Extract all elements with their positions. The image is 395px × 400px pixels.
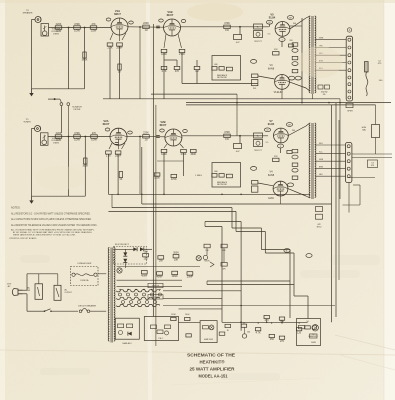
pentode V7 EL84 (upper right-ch) — [268, 119, 289, 143]
triode V2A 6EU7 — [103, 119, 127, 145]
pin oval V2A right — [128, 131, 133, 134]
svg-text:ALL CAPACITORS IN MFD ±20% AT: ALL CAPACITORS IN MFD ±20% AT μMFD UNLES… — [11, 218, 92, 221]
wire - bus h1 — [151, 93, 237, 95]
hum balance box — [362, 125, 380, 138]
svg-text:TUNER: TUNER — [23, 122, 31, 124]
svg-text:1/2W: 1/2W — [91, 30, 97, 33]
wire - junction drop — [139, 27, 141, 99]
paper stain top — [187, 3, 243, 21]
svg-text:NETWORK: NETWORK — [217, 184, 227, 186]
resistor R117 100 ch2 — [292, 163, 298, 166]
resistor R10 270K — [179, 49, 185, 56]
node — [239, 26, 241, 28]
wire - vert v1 — [153, 24, 155, 94]
heater loops 3 — [117, 304, 160, 306]
pentode V6 EL84 (lower left-ch) — [275, 75, 290, 90]
capacitor C104 — [156, 136, 160, 138]
resistor R109 100K — [161, 149, 167, 156]
input jack J1 (left channel) — [23, 10, 42, 22]
wire - V1A plate to V1B grid — [128, 26, 164, 28]
switch SW2 on bottom wire — [40, 309, 78, 312]
transformer T2 output — [309, 123, 316, 199]
ground (right input) — [29, 196, 33, 204]
wire — [119, 46, 121, 99]
wire — [141, 147, 143, 204]
wire - B+ pair to preamp h2 — [207, 284, 294, 286]
svg-text:220K: 220K — [171, 314, 176, 316]
resistor R21 filter — [158, 256, 164, 263]
resistor R22 filter — [173, 252, 179, 262]
capacitor C4 coupling — [234, 35, 242, 44]
resistor R114 470K — [224, 131, 231, 141]
svg-text:9.5: 9.5 — [266, 142, 269, 144]
resistor R34 — [269, 334, 274, 341]
svg-text:47K: 47K — [175, 70, 180, 73]
svg-text:40MF 350V: 40MF 350V — [204, 339, 214, 341]
can capacitor C21 — [196, 256, 201, 261]
resistor R117b — [292, 176, 298, 179]
wire — [240, 26, 269, 28]
B+ oval label 2 — [306, 254, 312, 258]
feedback network box ch2 — [212, 163, 241, 188]
T2 secondary stubs + labels — [315, 143, 345, 176]
diode D2 — [140, 247, 144, 251]
resistor R31 — [255, 328, 261, 335]
wire — [312, 94, 314, 99]
svg-text:GRN: GRN — [319, 159, 324, 161]
wire - ch1 input line — [49, 27, 112, 29]
resistor R20 filter — [143, 251, 149, 261]
wire - ch1 lower bus — [103, 98, 340, 100]
wire — [32, 19, 36, 21]
svg-text:1/2W: 1/2W — [74, 139, 80, 142]
svg-text:470K: 470K — [171, 178, 177, 181]
impedance tap boxes — [318, 85, 330, 96]
pin oval V7 cathode — [277, 144, 283, 148]
capacitor C3 — [156, 26, 160, 28]
resistor R16 22K — [273, 49, 279, 55]
wire — [60, 106, 62, 134]
wire - staircase c — [205, 221, 241, 223]
svg-text:OUTLET: OUTLET — [65, 292, 73, 294]
svg-text:20MF: 20MF — [172, 275, 179, 278]
svg-text:CIRCUIT BREAKER: CIRCUIT BREAKER — [78, 304, 97, 307]
diode D4 — [123, 259, 127, 263]
svg-text:WERE TAKEN WITH A 1 MEGOHM INP: WERE TAKEN WITH A 1 MEGOHM INPUT VTVM AT… — [13, 234, 76, 237]
label 6.3V row1 — [148, 283, 163, 287]
screen divider stack — [254, 24, 263, 43]
pin oval V6b — [295, 76, 301, 80]
resistor R41 — [185, 317, 190, 320]
resistor R110 270K — [181, 149, 187, 156]
damping network cluster right — [316, 207, 323, 229]
wire - B+ rail vertical — [301, 18, 303, 103]
voltage labels near V5 — [268, 23, 296, 36]
wire - V8 cathode to bus — [280, 196, 282, 204]
pentode V5 EL84 (upper left-ch) — [269, 13, 290, 37]
resistor R30 — [241, 324, 246, 327]
svg-text:1 MEG: 1 MEG — [195, 175, 202, 177]
svg-text:NEON: NEON — [204, 261, 210, 263]
triode V1A 6EU7 — [111, 9, 128, 35]
diode D5 bias — [128, 332, 132, 336]
node — [139, 26, 141, 28]
triode V2B 6EU7 — [160, 120, 182, 146]
resistor R9 100K — [161, 49, 167, 56]
wire — [196, 60, 198, 66]
svg-text:SILICON RECT.: SILICON RECT. — [115, 244, 130, 246]
resistor R17b — [292, 69, 298, 72]
svg-text:22K: 22K — [274, 49, 278, 51]
svg-text:470K: 470K — [74, 132, 80, 135]
svg-text:470K: 470K — [74, 23, 80, 26]
silicon rectifier dashed box — [114, 244, 147, 264]
svg-text:1 MEG: 1 MEG — [53, 143, 60, 145]
wire - heater run 2 — [163, 297, 222, 299]
svg-text:SPKR: SPKR — [347, 110, 353, 112]
screen divider stack 2 — [254, 133, 263, 152]
heater loops 2 — [117, 297, 160, 299]
wire - V6 grid bus — [182, 83, 258, 85]
resistor R33 — [279, 317, 284, 324]
svg-text:330K: 330K — [190, 153, 196, 156]
wire — [107, 154, 109, 194]
T1 secondary stubs + labels — [315, 38, 350, 91]
svg-text:220K: 220K — [143, 132, 149, 135]
resistor R3 470K — [74, 23, 81, 33]
resistor R5 360K — [82, 52, 88, 62]
svg-text:N750: N750 — [317, 226, 322, 228]
svg-text:V6 EL84: V6 EL84 — [274, 92, 284, 94]
faint crease above title — [0, 350, 395, 355]
resistor R40 — [171, 317, 176, 320]
svg-text:AT NO SIGNAL. DC VOLTAGES MAY: AT NO SIGNAL. DC VOLTAGES MAY VARY ±10% … — [13, 231, 92, 234]
terminal strip TS2 — [346, 143, 352, 183]
transformer PT1 power — [108, 248, 115, 343]
wire - V1B plate to output stage — [181, 26, 241, 28]
wire - AC top — [23, 289, 28, 291]
resistor R113 470K — [171, 174, 177, 181]
wire - vert x241 heater — [240, 222, 242, 331]
bias row wires — [222, 319, 308, 334]
wire - ch2 lower bus B — [142, 203, 332, 205]
resistor R7 1K — [118, 64, 122, 74]
svg-text:MODEL AA-151: MODEL AA-151 — [199, 373, 228, 378]
svg-text:NETWORK: NETWORK — [217, 77, 227, 79]
resistor R32 — [264, 315, 269, 322]
wire - bus h3 — [186, 104, 376, 106]
wire - V8 plate to T2 primary bottom — [288, 189, 306, 196]
capacitor C109 oval — [292, 155, 298, 159]
wire - ch2 lower bus A — [108, 193, 310, 195]
resistor R106 2.2K — [106, 151, 112, 158]
svg-text:40MF: 40MF — [156, 276, 163, 279]
wire — [124, 249, 126, 252]
triode V1B 6EU7 — [164, 10, 181, 36]
svg-text:10K: 10K — [174, 258, 179, 261]
feedback network box ch1 — [212, 56, 241, 81]
svg-text:6EU7: 6EU7 — [103, 122, 110, 126]
transformer T1 output — [309, 16, 316, 94]
staircase bus pair — [108, 208, 308, 319]
bottom right cluster — [297, 319, 321, 346]
resistor R115 269 — [287, 151, 292, 154]
svg-text:6EU7: 6EU7 — [160, 123, 167, 127]
svg-text:FILTER: FILTER — [74, 109, 81, 111]
svg-text:1/2W: 1/2W — [74, 30, 80, 33]
input jack J2 (right channel) — [23, 119, 40, 131]
wire - heater run 3 — [163, 305, 335, 307]
wire — [183, 153, 185, 176]
svg-text:1/2W: 1/2W — [91, 139, 97, 142]
capacitor C22 40MF — [141, 271, 148, 278]
wire — [67, 106, 69, 137]
wire - V1B cathode drops — [164, 34, 182, 48]
capacitor C7 oval — [292, 49, 298, 53]
heater row circles 1 — [119, 289, 162, 296]
wire - V2A cathode drops — [109, 143, 125, 149]
svg-text:6.3V 3A: 6.3V 3A — [152, 296, 159, 299]
wire - vert v4 — [236, 94, 238, 136]
resistor R37 — [305, 326, 310, 329]
node — [84, 136, 86, 138]
wire — [84, 28, 86, 89]
pin oval V1B right — [181, 20, 186, 23]
label scratch filter — [72, 106, 82, 111]
resistor R12 47K — [174, 66, 180, 73]
wire — [179, 321, 201, 323]
wire - ch2 ground bus — [32, 195, 86, 197]
capacitor C102 — [115, 151, 122, 158]
wire - V2A plate to V2B grid — [127, 135, 165, 138]
wire — [290, 25, 302, 27]
mid-left divider cluster — [203, 244, 227, 270]
svg-text:SW: SW — [27, 290, 30, 292]
svg-text:360K: 360K — [82, 165, 88, 168]
svg-text:P.E.C.: P.E.C. — [158, 338, 164, 340]
wire — [38, 274, 40, 284]
level control R1 box — [41, 24, 49, 37]
capacitor C106 oval — [286, 123, 292, 127]
capacitor C105 coupling — [234, 144, 242, 153]
wire — [84, 137, 86, 197]
label level control — [51, 29, 62, 36]
wire — [68, 28, 70, 89]
notes text block — [9, 206, 98, 240]
wire — [181, 53, 183, 84]
pin oval V1B left — [159, 19, 164, 22]
label level control 2 — [51, 138, 62, 145]
svg-text:EL84: EL84 — [269, 16, 276, 20]
pin oval V1A left — [106, 18, 111, 21]
wire — [240, 135, 268, 137]
wire - V8 grid line — [258, 183, 273, 186]
pin oval V2A left — [105, 128, 110, 131]
svg-text:680: 680 — [214, 64, 217, 66]
component chain between V7/V8 — [292, 149, 298, 152]
wire — [269, 24, 271, 27]
svg-text:NOTES:: NOTES: — [11, 206, 21, 209]
capacitor C23 40MF — [156, 272, 163, 279]
svg-text:47K: 47K — [265, 319, 270, 322]
wire - V5 plate to T1 primary top — [290, 18, 306, 29]
svg-text:GRN: GRN — [319, 38, 324, 40]
svg-text:EL84: EL84 — [268, 122, 275, 126]
svg-text:6AN8: 6AN8 — [268, 174, 275, 177]
wire — [163, 53, 165, 99]
wire - vert v3 — [155, 105, 157, 346]
svg-text:HEATHKIT®: HEATHKIT® — [200, 359, 226, 364]
scratch filter switch — [48, 98, 70, 105]
svg-text:22K: 22K — [274, 156, 278, 158]
resistor R107 1K — [119, 172, 123, 182]
wire - V2B cathode drops — [164, 144, 184, 148]
diode D1 — [133, 247, 137, 251]
label to heaters — [309, 334, 319, 338]
thermal breaker — [78, 304, 97, 312]
resistor R18 grid — [252, 74, 258, 90]
bleed-through ghost marks — [20, 255, 380, 380]
wire - junction drop 2 — [139, 137, 141, 195]
bottom mid network — [144, 317, 178, 341]
resistor R6 2.2K — [107, 43, 113, 50]
wire - V6 grid line — [258, 76, 275, 79]
wire - V6 cathode to bus — [281, 89, 283, 99]
wire - PS bus A — [117, 266, 201, 268]
resistor R11 4.7K — [161, 66, 167, 73]
component chain between V5/V6 — [292, 43, 298, 46]
wire - long vertical right A — [331, 105, 333, 322]
wire — [117, 154, 119, 194]
svg-text:270: 270 — [280, 340, 285, 343]
svg-text:300: 300 — [293, 23, 296, 25]
left edge light strip — [0, 0, 5, 400]
wire — [90, 310, 106, 312]
wire - TS2 to right edge A — [352, 153, 392, 155]
wire — [281, 41, 283, 47]
wire - below TS2 routing — [343, 178, 376, 213]
right edge light strip — [384, 0, 395, 400]
level control R101 box — [41, 133, 49, 146]
wire — [179, 308, 223, 310]
svg-text:164: 164 — [144, 251, 149, 254]
node — [84, 27, 86, 29]
svg-text:4.7K: 4.7K — [161, 70, 166, 73]
label 6.3V row2 — [148, 295, 163, 299]
capacitor C24 20MF — [172, 271, 179, 278]
terminal strip TS1 — [346, 36, 352, 101]
svg-text:300: 300 — [292, 130, 295, 132]
fuse F1 box — [54, 285, 73, 300]
heater loops 1 — [117, 290, 160, 292]
wire — [98, 273, 106, 275]
wire - bus h2 — [186, 102, 391, 104]
label V4 6AN8 — [268, 171, 275, 177]
ground (left input) — [29, 89, 33, 97]
svg-text:BRN: BRN — [319, 167, 324, 169]
pin oval V5 cathode — [279, 38, 285, 42]
B+ oval label — [284, 249, 290, 253]
wire - vert x222 — [221, 227, 223, 323]
node — [239, 135, 241, 137]
wire — [109, 46, 111, 99]
capacitor C6 oval — [266, 20, 272, 24]
svg-text:1/2W: 1/2W — [56, 30, 62, 33]
wire — [32, 128, 35, 130]
wire - jack ground drop — [31, 20, 33, 89]
wire - PS bus B — [117, 279, 183, 281]
resistor R105 360K — [82, 158, 88, 168]
svg-text:1K: 1K — [119, 178, 122, 181]
resistor R36 — [296, 328, 301, 335]
wire — [196, 70, 198, 84]
capacitor C108 oval — [251, 167, 257, 171]
wire — [144, 248, 152, 250]
wire - V6 plate to T1 primary bottom — [289, 82, 306, 88]
wire — [111, 194, 113, 207]
svg-text:6EU7: 6EU7 — [167, 13, 174, 17]
resistor R8 220K — [143, 22, 150, 32]
wire — [239, 27, 241, 35]
wire - B+ pair left corner — [206, 281, 208, 285]
wire — [176, 60, 178, 66]
svg-text:1K: 1K — [118, 71, 121, 74]
svg-text:BLU: BLU — [319, 143, 323, 145]
pin oval V1A right — [129, 21, 134, 24]
svg-text:1 MEG: 1 MEG — [53, 33, 60, 35]
node — [240, 305, 242, 307]
resistor R118 grid 2 — [252, 181, 258, 193]
faint diagonal creases bottom right — [335, 335, 395, 350]
wire - B+ pair to preamp h1 — [207, 280, 290, 282]
resistor R4 47K — [90, 23, 97, 33]
svg-text:6.3V 3A: 6.3V 3A — [152, 285, 159, 288]
pin oval V8 — [287, 183, 293, 187]
node — [68, 27, 70, 29]
svg-text:ℓ PRINTED CIRCUIT BOARD.: ℓ PRINTED CIRCUIT BOARD. — [9, 237, 37, 240]
svg-text:47K: 47K — [91, 23, 96, 26]
capacitor C2 — [116, 43, 123, 50]
heater row circles 2 — [122, 301, 157, 304]
speaker socket box below TS1 — [346, 103, 353, 112]
wire - heater run 1 — [163, 290, 241, 292]
resistor R116 22K ch2 — [273, 156, 279, 162]
pin oval V6 — [289, 76, 295, 80]
AC line plug — [7, 284, 23, 296]
svg-text:EL84: EL84 — [268, 198, 274, 200]
wire — [68, 137, 70, 197]
svg-text:470K: 470K — [224, 22, 230, 25]
resistor R17 100 — [292, 56, 298, 59]
capacitor C109b oval — [292, 168, 298, 172]
label V3 6AN8 — [268, 64, 275, 70]
svg-text:6EU7: 6EU7 — [114, 12, 121, 16]
svg-text:20MF: 20MF — [187, 276, 194, 279]
node — [68, 136, 70, 138]
wire - right bus down from T1 — [339, 99, 341, 199]
resistor R111 330K — [190, 149, 196, 156]
wire - vert v2 — [153, 94, 155, 316]
svg-text:TEST PT: TEST PT — [254, 41, 263, 43]
svg-text:105K: 105K — [154, 177, 160, 180]
svg-text:150: 150 — [144, 257, 149, 260]
wire - ch2 input line — [48, 136, 110, 138]
svg-text:360K: 360K — [82, 59, 88, 62]
svg-text:BAL: BAL — [362, 128, 366, 131]
wire - ch1 ground bus — [32, 88, 85, 90]
wire - staircase d — [205, 226, 222, 228]
svg-text:220K: 220K — [56, 23, 62, 26]
